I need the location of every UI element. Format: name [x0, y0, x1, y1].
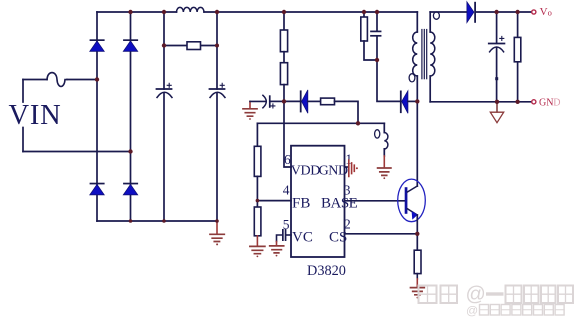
- svg-text:o: o: [548, 7, 552, 17]
- svg-text:VIN: VIN: [9, 100, 62, 131]
- capacitor C5 (VC decoupling): [282, 229, 286, 241]
- svg-text:BASE: BASE: [321, 196, 358, 212]
- transformer phase dot (aux top): [375, 130, 380, 138]
- resistor R5 (feedback divider upper): [254, 146, 261, 176]
- svg-text:CS: CS: [329, 229, 347, 245]
- wire: VIN bottom lead to bridge: [23, 151, 131, 153]
- resistor R8 (current sense): [414, 250, 421, 273]
- transformer phase dot (primary bottom): [409, 74, 415, 82]
- wire: VC cap to ground: [277, 235, 283, 242]
- wire: FB lead: [257, 200, 291, 202]
- diode D5 (VDD rectifier from aux winding): [300, 90, 308, 113]
- svg-text:GN: GN: [539, 98, 553, 109]
- terminal GND: [532, 100, 536, 104]
- ground (feedback divider): [250, 236, 265, 257]
- svg-text:GND: GND: [319, 163, 348, 178]
- snubber capacitor C4: [376, 12, 378, 31]
- wire: divider top vertical: [256, 123, 258, 146]
- resistor R2 (startup dropper upper): [283, 12, 285, 30]
- capacitor C1 (bulk electrolytic, left): [157, 83, 173, 97]
- wire: divider middle: [256, 176, 258, 207]
- capacitor C3 (VDD filter, polarized): [250, 95, 275, 108]
- wire: bridge left column: [96, 12, 98, 221]
- wire: VDD node to rectifier diode: [284, 100, 300, 102]
- svg-text:FB: FB: [292, 196, 310, 212]
- watermark line 1: [419, 286, 574, 304]
- wire: bridge right column: [130, 12, 132, 221]
- wire: top DC rail: [97, 11, 417, 13]
- resistor R9 (output preload): [517, 12, 519, 102]
- ground (aux winding return): [378, 156, 391, 179]
- svg-text:D3820: D3820: [307, 263, 346, 279]
- wire: BASE lead to transistor: [345, 200, 405, 202]
- inductor L1 (pi-filter choke on top rail): [177, 7, 204, 12]
- resistor R6 (feedback divider lower): [254, 207, 261, 236]
- terminal Vo: [532, 10, 536, 14]
- wire: secondary top rail to output diode: [430, 11, 467, 13]
- op IC U1 D3820 body: [291, 146, 345, 257]
- wire: VC pin lead: [286, 234, 291, 236]
- wire: VDD cap to node: [271, 100, 284, 102]
- wire: pin 1 GND stub: [345, 166, 349, 168]
- svg-text:4: 4: [283, 183, 290, 198]
- wire: VDD node vertical down to pin 6: [284, 85, 291, 167]
- ground (VC pin): [270, 242, 284, 257]
- wire: between startup resistors: [283, 52, 285, 63]
- transformer T1 secondary winding: [430, 12, 435, 102]
- wire: snubber bottom to clamp diode: [377, 36, 400, 102]
- wire: output return rail: [430, 101, 531, 103]
- ground (IC pin 1, rotated): [349, 160, 358, 176]
- resistor R1 (parallel with choke): [187, 42, 201, 50]
- wire: bottom DC rail: [97, 220, 217, 222]
- ground (primary bottom rail): [210, 221, 224, 245]
- diode D3 (bridge lower-left): [90, 183, 105, 195]
- svg-text:@: @: [466, 284, 486, 306]
- wire: CS lead to emitter node: [345, 233, 418, 235]
- capacitor C2 (bulk electrolytic, right): [210, 83, 226, 97]
- resistor R3 (startup dropper lower): [280, 63, 287, 85]
- wire: resistor to aux node: [335, 101, 359, 123]
- capacitor C6 (output electrolytic): [489, 12, 505, 102]
- wire: damping-resistor row: [164, 45, 217, 47]
- wire: diode to resistor: [308, 100, 321, 102]
- diode D6 (RCD clamp): [400, 91, 408, 114]
- wire: emitter down to CS node: [416, 215, 418, 250]
- ground (VDD filter cap): [243, 101, 257, 120]
- diode D4 (bridge lower-right): [123, 183, 138, 195]
- svg-text:V: V: [540, 6, 548, 18]
- transformer T1 auxiliary winding: [384, 123, 388, 156]
- transformer T1 core: [422, 30, 427, 79]
- diode D2 (bridge upper-right): [123, 39, 138, 51]
- resistor R4 (aux supply series): [321, 98, 335, 105]
- transistor Q1 (NPN): [398, 179, 426, 222]
- wire: left filter-cap branch vertical: [163, 12, 165, 221]
- svg-text:VC: VC: [292, 229, 313, 245]
- wire: aux sense rail: [257, 122, 384, 124]
- svg-text:VDD: VDD: [291, 163, 320, 178]
- diode D7 (output rectifier): [467, 2, 476, 23]
- svg-text:D: D: [553, 98, 560, 109]
- wire: clamp diode to primary node: [408, 100, 417, 102]
- wire: VIN left vertical upper: [22, 80, 24, 103]
- snubber resistor R7: [363, 12, 365, 17]
- transformer T1 primary winding: [413, 12, 418, 186]
- wire: output positive rail: [476, 11, 532, 13]
- transformer phase dot (secondary top): [433, 12, 439, 19]
- wire: AC top lead from VIN to bridge: [23, 79, 97, 81]
- ground (current sense resistor): [411, 274, 425, 299]
- diode D1 (bridge upper-left): [90, 39, 105, 51]
- wire: VIN left vertical lower: [22, 128, 24, 152]
- fuse F (squiggle on AC lead): [47, 73, 67, 87]
- earth (output return): [490, 102, 503, 123]
- junction artifact on output cap lead: [495, 77, 498, 80]
- svg-text:@: @: [466, 304, 478, 318]
- wire: right filter-cap branch vertical: [216, 12, 218, 221]
- wire: snubber R bottom: [364, 41, 377, 60]
